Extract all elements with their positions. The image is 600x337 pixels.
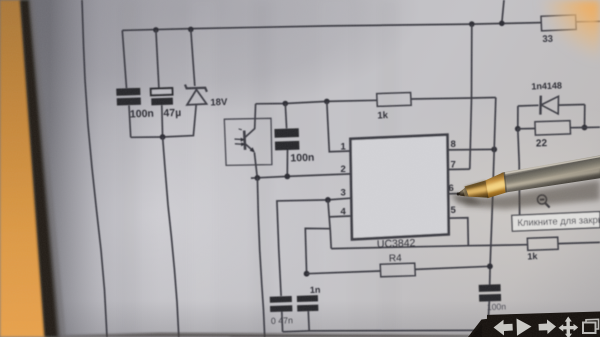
right arrow icon	[539, 320, 557, 335]
wire down-left from rail to C 100n	[122, 30, 126, 88]
tooltip box	[512, 212, 600, 232]
move icon	[559, 317, 579, 337]
node R4 right junction	[487, 263, 493, 269]
wire opto collector rail	[256, 100, 377, 104]
left orange wall band	[0, 0, 46, 337]
wire rail right of resistor 33	[576, 20, 600, 23]
node pin3 dot	[325, 197, 331, 203]
window icon	[583, 319, 599, 333]
wire below 0.47n	[281, 312, 284, 332]
barrel dark seam at ring	[502, 172, 508, 193]
wire pin 3 net to 0.47n	[277, 198, 351, 296]
tip glint	[460, 189, 465, 193]
wire right of 1k bottom	[558, 242, 600, 243]
optocoupler phototransistor	[243, 131, 247, 150]
wire down from diode pair	[518, 129, 520, 216]
cone bright streak	[466, 187, 487, 195]
wire long left vertical	[82, 0, 107, 337]
node collector rail dot 2	[324, 99, 330, 105]
bottom bezel wedge	[55, 333, 470, 337]
toolbar	[468, 312, 600, 337]
play icon	[517, 319, 532, 336]
wire pin 8	[448, 148, 494, 151]
wire below C 47u	[161, 105, 164, 137]
left bezel dark band	[20, 0, 60, 337]
capacitor 100n (opto)	[285, 104, 286, 129]
resistor 22	[535, 121, 571, 136]
wire diode left riser	[517, 106, 519, 129]
wire long vertical from emitter rail	[257, 178, 264, 337]
wire right of 22	[585, 126, 600, 128]
wire emitter rail to pin 2	[251, 174, 351, 178]
tip metal	[458, 187, 469, 196]
wire long ground vertical	[163, 137, 179, 337]
IC U1 UC3842	[350, 135, 448, 240]
wire pin 5 jog	[447, 218, 469, 246]
resistor R4	[307, 271, 381, 274]
barrel	[503, 155, 600, 193]
capacitor 0.47n	[270, 296, 292, 303]
wire down from rail to zener	[191, 29, 195, 86]
wire below 100n br	[488, 301, 489, 320]
capacitor 100n (left)	[116, 88, 140, 96]
node diode left	[515, 126, 521, 132]
node rail dot above zener	[188, 27, 194, 33]
barrel lower highlight streak	[506, 170, 600, 189]
left arrow icon	[494, 320, 513, 336]
wire top supply rail	[122, 23, 541, 31]
pen	[457, 155, 600, 198]
barrel top light edge	[503, 156, 600, 175]
wire pin 1	[327, 101, 351, 151]
wire 1n branch	[305, 228, 330, 273]
wire vref vertical (rail corner down)	[490, 98, 496, 285]
wire vcc vertical (top rail to pin7)	[470, 24, 472, 169]
cone	[465, 181, 489, 198]
resistor 1k (top)	[377, 93, 412, 107]
wire pin 7	[448, 168, 470, 170]
resistor 1k (bottom)	[527, 237, 558, 250]
cone dark top edge	[465, 181, 486, 189]
wire diode right riser	[584, 105, 586, 128]
wire below zener	[163, 105, 197, 137]
node collector rail dot	[283, 101, 289, 107]
node top rail junction B	[499, 21, 505, 27]
node diode right	[582, 125, 588, 131]
capacitor 47u electrolytic	[151, 88, 173, 95]
resistor 33	[541, 15, 576, 31]
node emitter rail dot	[255, 175, 261, 181]
zener diode 18V	[185, 85, 207, 92]
gold ring	[485, 172, 506, 198]
capacitor 100n (bottom right)	[479, 284, 501, 292]
node opto cap dot	[284, 174, 290, 180]
wire pin 6 output	[448, 192, 493, 195]
ring bright band	[485, 180, 505, 193]
wire cap ground rail	[131, 136, 163, 138]
wire below 1n	[307, 311, 310, 331]
capacitor 1n	[297, 295, 318, 302]
wire stub up from node to top edge	[502, 0, 504, 23]
top-right orange corner	[520, 0, 600, 70]
wire pin 4 stub	[329, 215, 350, 218]
pen shadow	[462, 180, 600, 209]
node cap rail junction	[160, 134, 166, 140]
optocoupler light arrows	[235, 138, 244, 141]
wire rail right of 1k	[411, 98, 496, 100]
node pin 8 junction	[491, 147, 497, 153]
node top rail junction A	[469, 21, 475, 27]
wire pin3 vertical down / pin 4	[328, 200, 331, 249]
wire under-IC ground run	[331, 245, 527, 249]
node bottom rail dot	[481, 328, 487, 334]
wire opto emitter down	[254, 153, 257, 178]
optocoupler U2 box	[224, 118, 272, 165]
wire below C 100n	[129, 105, 131, 137]
node rail dot above 47u	[153, 27, 159, 33]
wire below opto cap	[286, 150, 288, 176]
magnifier zoom-out icon	[538, 195, 547, 204]
wire down from rail to C 47u	[156, 30, 159, 88]
wire bottom ground rail	[283, 330, 485, 332]
node R4 junction	[304, 271, 310, 277]
